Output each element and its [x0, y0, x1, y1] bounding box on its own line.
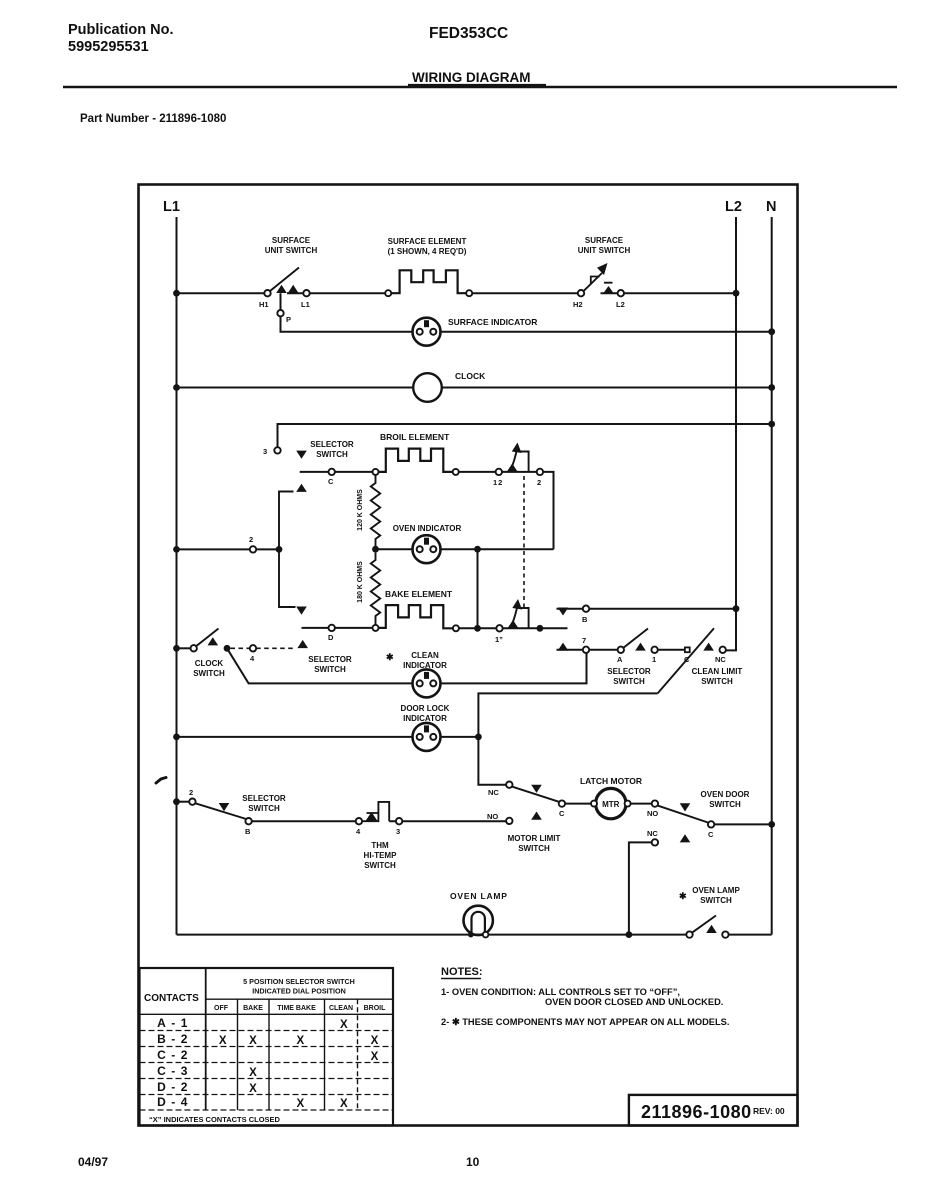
switch broil blade — [511, 450, 517, 469]
svg-text:X: X — [340, 1019, 348, 1031]
svg-text:P: P — [286, 315, 291, 324]
svg-text:OVEN LAMP: OVEN LAMP — [450, 891, 508, 901]
label C door — [708, 830, 714, 839]
svg-text:CLOCK: CLOCK — [195, 659, 224, 668]
svg-text:C-2: C-2 — [157, 1048, 193, 1062]
wire P branch — [281, 293, 413, 332]
svg-text:D-4: D-4 — [157, 1095, 193, 1109]
svg-text:BROIL ELEMENT: BROIL ELEMENT — [380, 432, 450, 442]
svg-text:2: 2 — [537, 478, 541, 487]
surface indicator label — [448, 317, 537, 327]
wire clock sw to clean indicator — [227, 648, 413, 683]
clock switch terminal — [191, 645, 197, 651]
svg-text:C-3: C-3 — [157, 1064, 193, 1078]
svg-text:MTR: MTR — [602, 800, 620, 809]
svg-text:X: X — [371, 1051, 379, 1063]
wire N rail — [771, 217, 773, 935]
svg-text:C: C — [708, 830, 714, 839]
label 3 selector — [263, 447, 267, 456]
svg-text:INDICATED DIAL POSITION: INDICATED DIAL POSITION — [252, 987, 346, 996]
junction L1 door lock row — [173, 734, 180, 741]
oven door switch terminal C — [708, 821, 714, 827]
svg-text:SELECTOR: SELECTOR — [242, 794, 286, 803]
motor limit terminal C — [559, 800, 565, 806]
svg-text:SURFACE INDICATOR: SURFACE INDICATOR — [448, 317, 537, 327]
wire motor to NO door — [631, 803, 652, 805]
junction bracket — [276, 546, 283, 553]
label H1 — [259, 300, 269, 309]
switch bake triangle — [508, 620, 519, 628]
label A selector — [617, 655, 623, 664]
svg-text:B-2: B-2 — [157, 1032, 193, 1046]
clock switch blade — [197, 629, 219, 646]
switch bake blade — [512, 607, 518, 626]
wire sw2 to right drop — [502, 472, 554, 549]
svg-text:X: X — [219, 1035, 227, 1047]
switch surface-right terminal L2 — [618, 290, 624, 296]
svg-text:INDICATOR: INDICATOR — [403, 714, 447, 723]
svg-text:SWITCH: SWITCH — [316, 450, 348, 459]
label B selector — [582, 615, 588, 624]
terminal B row2 — [245, 818, 251, 824]
surface indicator lamp — [413, 318, 441, 346]
door lock indicator lamp — [413, 723, 441, 751]
bake element left node — [373, 625, 379, 631]
motor limit switch label — [508, 834, 561, 853]
wire L2 rail — [726, 217, 736, 650]
terminal 4 row2 — [356, 818, 362, 824]
terminal 4 clock row — [250, 645, 256, 651]
oven lamp switch blade — [693, 916, 717, 933]
scan speck — [156, 778, 166, 784]
clock switch label — [193, 659, 225, 678]
terminal 3 selector — [274, 447, 280, 453]
clean limit blade — [658, 628, 714, 693]
selector common bracket — [279, 492, 296, 608]
terminal 3 row2 — [396, 818, 402, 824]
wire clean limit loop — [478, 693, 657, 784]
svg-text:BROIL: BROIL — [364, 1005, 387, 1012]
wire C door to N — [714, 823, 771, 825]
FOOTER — [78, 1155, 480, 1169]
switch surface-left triangle A — [276, 285, 287, 293]
selector triangle down B — [558, 608, 569, 616]
svg-text:H1: H1 — [259, 300, 269, 309]
svg-text:DOOR LOCK: DOOR LOCK — [401, 704, 450, 713]
terminal NC clean limit — [720, 647, 726, 653]
NOTES — [441, 966, 729, 1027]
svg-text:SWITCH: SWITCH — [248, 804, 280, 813]
svg-text:D-2: D-2 — [157, 1080, 193, 1094]
svg-text:120 K OHMS: 120 K OHMS — [357, 489, 364, 531]
svg-text:B: B — [582, 615, 588, 624]
wire 7 row — [557, 649, 618, 651]
svg-text:SELECTOR: SELECTOR — [607, 667, 651, 676]
svg-text:N: N — [766, 199, 776, 215]
oven door switch triangle NC — [680, 834, 691, 842]
svg-text:SWITCH: SWITCH — [700, 896, 732, 905]
wire selector 3 to N — [278, 424, 772, 447]
label P — [286, 315, 291, 324]
junction bake right — [537, 625, 544, 632]
svg-text:CONTACTS: CONTACTS — [144, 993, 199, 1004]
wire door lock row — [177, 736, 479, 738]
wire C to motor — [565, 803, 591, 805]
label NO door — [647, 809, 658, 818]
junction N row3 — [768, 421, 775, 428]
selector triangle down at 3 — [296, 451, 307, 459]
svg-text:BAKE ELEMENT: BAKE ELEMENT — [385, 589, 453, 599]
terminal B selector — [583, 606, 589, 612]
svg-text:1”: 1” — [495, 635, 503, 644]
label 4 row2 — [356, 827, 361, 836]
svg-text:UNIT SWITCH: UNIT SWITCH — [578, 246, 631, 255]
clean indicator label — [403, 651, 447, 670]
svg-text:SURFACE ELEMENT: SURFACE ELEMENT — [388, 237, 467, 246]
switch surface-left triangle B — [288, 285, 299, 293]
svg-text:WIRING DIAGRAM: WIRING DIAGRAM — [412, 70, 531, 85]
label NC door — [647, 829, 658, 838]
svg-text:2- ✱ THESE COMPONENTS MAY NOT: 2- ✱ THESE COMPONENTS MAY NOT APPEAR ON … — [441, 1017, 729, 1027]
oven door switch terminal NO — [652, 800, 658, 806]
wire L1 to clock switch — [177, 647, 191, 649]
junction bake row — [474, 625, 481, 632]
svg-text:12: 12 — [493, 478, 503, 487]
svg-text:C: C — [328, 477, 334, 486]
svg-text:L2: L2 — [616, 300, 625, 309]
svg-text:NC: NC — [715, 655, 726, 664]
label 2 left — [249, 535, 253, 544]
wire under right triangle — [601, 292, 625, 294]
svg-text:✱: ✱ — [679, 891, 687, 901]
label C motor limit — [559, 809, 565, 818]
svg-text:BAKE: BAKE — [243, 1005, 263, 1012]
broil element right terminal — [453, 469, 459, 475]
broil element — [379, 449, 453, 472]
svg-text:CLEAN LIMIT: CLEAN LIMIT — [692, 667, 743, 676]
svg-text:THM: THM — [371, 841, 389, 850]
svg-text:SWITCH: SWITCH — [193, 669, 225, 678]
svg-text:10: 10 — [466, 1155, 480, 1169]
surface element — [391, 270, 466, 293]
svg-text:X: X — [249, 1035, 257, 1047]
label 1" — [495, 635, 503, 644]
terminal C — [329, 469, 335, 475]
svg-text:SELECTOR: SELECTOR — [310, 440, 354, 449]
latch motor MTR — [591, 788, 631, 818]
terminal 1 selector — [651, 647, 657, 653]
clock switch triangle — [208, 637, 219, 645]
svg-text:211896-1080: 211896-1080 — [641, 1102, 752, 1122]
latch motor label — [580, 776, 642, 786]
junction N surface indicator row — [768, 328, 775, 335]
switch surface-right arrowhead — [597, 263, 608, 275]
label 7 selector — [582, 636, 586, 645]
svg-text:X: X — [249, 1067, 257, 1079]
svg-text:SWITCH: SWITCH — [709, 800, 741, 809]
svg-text:A: A — [617, 655, 623, 664]
schematic border frame — [139, 185, 798, 1126]
title underline — [408, 84, 546, 86]
label L2 pin — [616, 300, 625, 309]
svg-text:2: 2 — [249, 535, 253, 544]
label MTR — [602, 800, 620, 809]
wire B to 4 — [252, 820, 356, 822]
motor limit terminal NC — [506, 782, 512, 788]
mech link clock-selector — [231, 647, 295, 649]
oven lamp switch triangle — [706, 925, 717, 933]
label NO motor limit — [487, 812, 498, 821]
switch broil terminal 2 — [537, 469, 543, 475]
svg-text:LATCH MOTOR: LATCH MOTOR — [580, 776, 642, 786]
svg-text:OVEN DOOR CLOSED AND UNLOCKED.: OVEN DOOR CLOSED AND UNLOCKED. — [545, 997, 723, 1007]
label 2 broil — [537, 478, 541, 487]
oven door switch triangle NO — [680, 803, 691, 811]
switch bake arrowhead — [512, 599, 522, 610]
junction oven ind row — [474, 546, 481, 553]
junction L1 row2 — [173, 546, 180, 553]
clean limit switch label — [692, 667, 743, 686]
wire B row to L2 — [557, 608, 737, 610]
switch surface-left terminal L1 — [303, 290, 309, 296]
label 180K OHMS — [357, 561, 364, 603]
svg-text:CLOCK: CLOCK — [455, 371, 486, 381]
selector switch label upper — [310, 440, 354, 459]
bake element right terminal — [453, 625, 459, 631]
motor limit triangle NO — [531, 812, 542, 820]
selector triangle up 7 — [558, 643, 569, 651]
wire lamp row — [177, 934, 772, 936]
oven door switch terminal NC — [652, 839, 658, 845]
resistor 180K — [371, 553, 380, 625]
terminal D — [329, 625, 335, 631]
svg-text:OVEN INDICATOR: OVEN INDICATOR — [393, 524, 462, 533]
wire cross drop — [477, 549, 479, 628]
clean indicator lamp — [413, 669, 441, 697]
svg-text:NO: NO — [647, 809, 658, 818]
switch surface-right terminal H2 — [578, 290, 584, 296]
svg-text:B: B — [245, 827, 251, 836]
svg-text:REV: 00: REV: 00 — [753, 1106, 785, 1116]
svg-text:X: X — [340, 1098, 348, 1110]
thermostat triangle — [366, 812, 378, 821]
svg-text:D: D — [328, 633, 334, 642]
wire 1 to C clean limit — [658, 649, 685, 651]
junction L2 top row — [733, 290, 740, 297]
svg-text:OVEN LAMP: OVEN LAMP — [692, 886, 740, 895]
wire oven indicator row — [376, 548, 554, 550]
bake element label — [385, 589, 453, 599]
selector triangle up A1 — [635, 643, 646, 651]
svg-text:7: 7 — [582, 636, 586, 645]
resistor 120K — [371, 475, 380, 546]
svg-text:SURFACE: SURFACE — [272, 236, 311, 245]
selector row2 triangle — [219, 803, 230, 811]
motor limit blade — [512, 787, 559, 802]
switch surface-right pennant — [591, 277, 613, 285]
selector row2: junction L1 — [173, 798, 180, 805]
svg-text:5995295531: 5995295531 — [68, 39, 149, 55]
label B row2 — [245, 827, 251, 836]
clock switch: junction L1 — [173, 645, 180, 652]
broil element label — [380, 432, 450, 442]
surface element left terminal — [385, 290, 391, 296]
switch broil arrowhead — [512, 443, 522, 454]
thermostat THM bump — [362, 802, 389, 821]
svg-text:Part Number - 211896-1080: Part Number - 211896-1080 — [80, 113, 226, 125]
svg-text:NC: NC — [647, 829, 658, 838]
svg-text:L1: L1 — [163, 199, 180, 215]
svg-text:✱: ✱ — [386, 652, 394, 662]
wire bake to 1 — [459, 627, 496, 629]
terminal P — [277, 310, 283, 316]
wire L1 rail — [176, 217, 178, 935]
selector row2 label — [242, 794, 286, 813]
label D — [328, 633, 334, 642]
label 3 row2 — [396, 827, 400, 836]
door lock indicator label — [401, 704, 450, 723]
oven lamp switch label — [692, 886, 740, 905]
motor limit triangle NC — [531, 785, 542, 793]
svg-text:L2: L2 — [725, 199, 742, 215]
switch surface-right triangle — [603, 286, 614, 293]
svg-text:SWITCH: SWITCH — [701, 677, 733, 686]
thermostat label — [364, 841, 398, 870]
junction door lock tap — [475, 734, 482, 741]
svg-text:SWITCH: SWITCH — [613, 677, 645, 686]
svg-text:5 POSITION SELECTOR SWITCH: 5 POSITION SELECTOR SWITCH — [243, 977, 355, 986]
wire C row — [300, 471, 373, 473]
selector triangle up C — [296, 484, 307, 492]
broil element left node — [373, 469, 379, 475]
svg-text:SURFACE: SURFACE — [585, 236, 624, 245]
junction L1 clock row — [173, 384, 180, 391]
svg-text:H2: H2 — [573, 300, 583, 309]
TABLE — [140, 968, 394, 1126]
selector row2 blade — [195, 803, 245, 819]
label 4 clock row — [250, 654, 255, 663]
wire clean indicator to 7 — [441, 653, 587, 683]
svg-text:NOTES:: NOTES: — [441, 966, 483, 978]
svg-text:SWITCH: SWITCH — [314, 665, 346, 674]
oven lamp bulb — [464, 906, 493, 938]
label NC clean limit — [715, 655, 726, 664]
wire top row L1 to L2 — [177, 292, 737, 294]
node L1 label — [163, 199, 180, 215]
notes underline — [441, 978, 481, 980]
svg-text:CLEAN: CLEAN — [329, 1005, 353, 1012]
svg-text:OFF: OFF — [214, 1005, 229, 1012]
mech link broil-bake — [523, 476, 525, 608]
surface unit switch left label — [265, 236, 318, 255]
junction N door — [768, 821, 775, 828]
svg-text:HI-TEMP: HI-TEMP — [364, 851, 398, 860]
clock label — [455, 371, 486, 381]
label 2 row2 — [189, 788, 193, 797]
switch surface-right blade — [584, 273, 602, 291]
junction L2 B row — [733, 605, 740, 612]
label 120K OHMS — [357, 489, 364, 531]
svg-text:X: X — [296, 1098, 304, 1110]
header rule — [63, 86, 897, 88]
svg-text:1: 1 — [652, 655, 656, 664]
svg-text:X: X — [371, 1035, 379, 1047]
surface element right terminal — [466, 290, 472, 296]
terminal 2 left — [250, 546, 256, 552]
svg-text:(1 SHOWN, 4 REQ'D): (1 SHOWN, 4 REQ'D) — [388, 247, 467, 256]
surface element label — [388, 237, 467, 256]
label 1 selector — [652, 655, 656, 664]
switch bake bracket — [520, 608, 529, 628]
wire 3 to NO — [389, 820, 506, 822]
svg-text:Publication No.: Publication No. — [68, 22, 174, 38]
wire broil to sw12 — [459, 471, 496, 473]
PART NUMBER BOX — [629, 1095, 798, 1126]
switch broil triangle — [507, 464, 518, 472]
switch broil terminal 12 — [496, 469, 502, 475]
selector triangle mid — [297, 640, 308, 648]
svg-text:180 K OHMS: 180 K OHMS — [357, 561, 364, 603]
label C — [328, 477, 334, 486]
surface unit switch right label — [578, 236, 631, 255]
svg-text:CLEAN: CLEAN — [411, 651, 439, 660]
label H2 — [573, 300, 583, 309]
svg-text:SELECTOR: SELECTOR — [308, 655, 352, 664]
svg-text:NC: NC — [488, 788, 499, 797]
motor limit terminal NO — [506, 818, 512, 824]
svg-text:3: 3 — [263, 447, 267, 456]
junction L1 top row — [173, 290, 180, 297]
HEADER — [68, 22, 531, 125]
svg-text:UNIT SWITCH: UNIT SWITCH — [265, 246, 318, 255]
label 12 — [493, 478, 503, 487]
switch surface-left blade — [270, 268, 299, 291]
clock switch pivot dot — [224, 645, 231, 652]
svg-text:1- OVEN CONDITION: ALL CONTROL: 1- OVEN CONDITION: ALL CONTROLS SET TO “… — [441, 987, 680, 997]
svg-text:2: 2 — [189, 788, 193, 797]
oven lamp switch terminal R — [722, 931, 728, 937]
svg-text:X: X — [296, 1035, 304, 1047]
label NC motor limit — [488, 788, 499, 797]
wire NC door drop — [629, 842, 652, 934]
bake element — [379, 605, 453, 628]
junction resistors mid — [372, 546, 379, 553]
svg-text:L1: L1 — [301, 300, 310, 309]
oven indicator label — [393, 524, 462, 533]
svg-text:SWITCH: SWITCH — [364, 861, 396, 870]
svg-text:TIME BAKE: TIME BAKE — [277, 1005, 316, 1012]
svg-text:3: 3 — [396, 827, 400, 836]
switch surface-left terminal H1 — [264, 290, 270, 296]
svg-text:C: C — [559, 809, 565, 818]
oven door switch label — [701, 790, 750, 809]
junction lamp row — [626, 931, 633, 938]
wire L1 to terminal2 — [177, 801, 190, 803]
selector row2 terminal 2 — [189, 799, 195, 805]
asterisk lamp switch — [679, 891, 687, 901]
wire bake right stub — [503, 627, 568, 629]
svg-text:X: X — [249, 1083, 257, 1095]
svg-text:MOTOR LIMIT: MOTOR LIMIT — [508, 834, 561, 843]
svg-text:“X” INDICATES CONTACTS CLOSED: “X” INDICATES CONTACTS CLOSED — [149, 1115, 281, 1124]
oven lamp label — [450, 891, 508, 901]
selector triangle down D — [296, 607, 307, 615]
svg-text:04/97: 04/97 — [78, 1155, 108, 1169]
terminal 7 selector — [583, 647, 589, 653]
switch bake terminal 1 — [496, 625, 502, 631]
svg-text:A-1: A-1 — [157, 1016, 193, 1030]
node N label — [766, 199, 776, 215]
